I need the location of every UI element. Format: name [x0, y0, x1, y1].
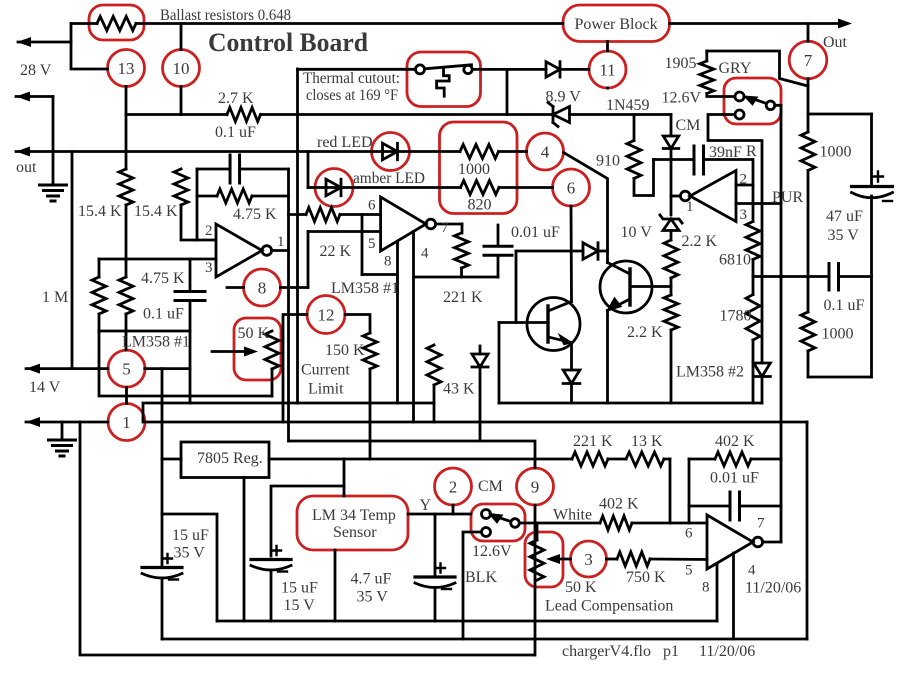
- svg-text:1000: 1000: [820, 144, 852, 161]
- svg-text:11/20/06: 11/20/06: [745, 580, 801, 597]
- svg-text:35 V: 35 V: [357, 589, 389, 606]
- svg-text:9: 9: [531, 478, 540, 497]
- svg-text:3: 3: [205, 260, 213, 276]
- svg-text:6: 6: [567, 179, 576, 198]
- svg-text:15 uF: 15 uF: [172, 527, 209, 544]
- svg-text:Ballast resistors 0.648: Ballast resistors 0.648: [160, 7, 291, 24]
- svg-text:12.6V: 12.6V: [662, 90, 702, 107]
- svg-text:35 V: 35 V: [828, 227, 860, 244]
- svg-text:0.1 uF: 0.1 uF: [143, 306, 184, 323]
- svg-text:11: 11: [599, 61, 615, 80]
- svg-text:8: 8: [702, 580, 710, 596]
- svg-text:10: 10: [173, 59, 190, 78]
- svg-text:8: 8: [258, 279, 267, 298]
- svg-text:402 K: 402 K: [715, 433, 755, 450]
- svg-text:7: 7: [441, 220, 449, 236]
- svg-text:14 V: 14 V: [29, 379, 61, 396]
- svg-text:amber LED: amber LED: [353, 170, 425, 187]
- svg-text:1: 1: [686, 199, 694, 215]
- svg-text:221 K: 221 K: [443, 289, 483, 306]
- svg-text:1000: 1000: [822, 326, 854, 343]
- svg-text:39nF: 39nF: [709, 144, 742, 161]
- svg-text:2.7 K: 2.7 K: [218, 90, 254, 107]
- svg-text:15 uF: 15 uF: [281, 580, 318, 597]
- svg-text:3: 3: [740, 207, 748, 223]
- svg-text:50 K: 50 K: [565, 579, 597, 596]
- svg-text:4: 4: [421, 246, 429, 262]
- svg-text:43 K: 43 K: [443, 381, 475, 398]
- svg-text:6: 6: [685, 526, 693, 542]
- svg-text:8.9 V: 8.9 V: [546, 89, 582, 106]
- svg-text:13: 13: [118, 59, 135, 78]
- svg-text:47 uF: 47 uF: [826, 208, 863, 225]
- svg-text:5: 5: [122, 360, 131, 379]
- svg-text:Lead Compensation: Lead Compensation: [545, 598, 673, 615]
- svg-text:7: 7: [804, 51, 813, 70]
- svg-text:chargerV4.flo: chargerV4.flo: [562, 643, 651, 660]
- svg-text:12: 12: [318, 306, 335, 325]
- svg-text:35 V: 35 V: [174, 545, 206, 562]
- svg-text:4: 4: [748, 563, 756, 579]
- svg-text:out: out: [16, 159, 37, 176]
- svg-text:4.75 K: 4.75 K: [141, 270, 185, 287]
- svg-text:150 K: 150 K: [325, 342, 365, 359]
- svg-text:221 K: 221 K: [573, 433, 613, 450]
- svg-text:15.4 K: 15.4 K: [134, 203, 178, 220]
- svg-text:Y: Y: [420, 497, 432, 514]
- svg-text:3: 3: [584, 550, 593, 569]
- svg-text:1780: 1780: [720, 308, 752, 325]
- svg-text:4.75 K: 4.75 K: [233, 206, 277, 223]
- svg-text:7805 Reg.: 7805 Reg.: [197, 450, 263, 467]
- svg-text:11/20/06: 11/20/06: [699, 643, 755, 660]
- svg-text:5: 5: [685, 563, 693, 579]
- svg-text:28 V: 28 V: [20, 62, 52, 79]
- svg-text:0.1 uF: 0.1 uF: [824, 297, 865, 314]
- svg-text:2.2 K: 2.2 K: [682, 233, 718, 250]
- svg-text:0.1 uF: 0.1 uF: [215, 124, 256, 141]
- svg-text:1: 1: [277, 234, 285, 250]
- svg-text:red LED: red LED: [317, 134, 373, 151]
- svg-text:2: 2: [449, 478, 458, 497]
- svg-text:LM358 #1: LM358 #1: [122, 334, 190, 351]
- svg-text:750 K: 750 K: [626, 569, 666, 586]
- svg-text:1N459: 1N459: [606, 97, 650, 114]
- svg-text:R: R: [746, 143, 757, 160]
- svg-text:GRY: GRY: [719, 60, 752, 77]
- svg-text:910: 910: [596, 153, 620, 170]
- svg-text:1: 1: [122, 413, 131, 432]
- svg-text:Sensor: Sensor: [333, 524, 377, 541]
- svg-text:4.7 uF: 4.7 uF: [351, 571, 392, 588]
- svg-text:6: 6: [368, 198, 376, 214]
- svg-text:2: 2: [740, 172, 748, 188]
- svg-text:0.01 uF: 0.01 uF: [511, 224, 560, 241]
- svg-text:50 K: 50 K: [238, 325, 270, 342]
- svg-text:p1: p1: [663, 643, 679, 660]
- svg-text:15.4 K: 15.4 K: [78, 203, 122, 220]
- svg-text:White: White: [553, 507, 592, 524]
- svg-text:4: 4: [541, 143, 550, 162]
- svg-text:1 M: 1 M: [42, 289, 68, 306]
- svg-text:820: 820: [468, 197, 492, 214]
- svg-text:Out: Out: [823, 34, 848, 51]
- svg-text:2.2 K: 2.2 K: [627, 324, 663, 341]
- svg-text:402 K: 402 K: [599, 496, 639, 513]
- svg-text:closes at 169 °F: closes at 169 °F: [306, 87, 398, 104]
- svg-text:10 V: 10 V: [621, 224, 653, 241]
- svg-text:12.6V: 12.6V: [472, 543, 512, 560]
- svg-text:0.01 uF: 0.01 uF: [710, 470, 759, 487]
- svg-text:5: 5: [368, 236, 376, 252]
- svg-text:6810: 6810: [719, 252, 751, 269]
- svg-text:7: 7: [757, 516, 765, 532]
- svg-text:Limit: Limit: [308, 381, 344, 398]
- svg-text:LM 34 Temp: LM 34 Temp: [312, 507, 396, 524]
- svg-text:CM: CM: [478, 478, 503, 495]
- svg-text:2: 2: [205, 223, 213, 239]
- svg-text:15 V: 15 V: [284, 597, 316, 614]
- svg-text:CM: CM: [676, 117, 701, 134]
- svg-text:1000: 1000: [458, 161, 490, 178]
- svg-text:LM358 #1: LM358 #1: [331, 280, 399, 297]
- svg-text:8: 8: [384, 254, 392, 270]
- svg-text:Current: Current: [301, 362, 350, 379]
- svg-text:LM358 #2: LM358 #2: [676, 364, 744, 381]
- svg-text:Control Board: Control Board: [208, 28, 369, 57]
- svg-text:13 K: 13 K: [631, 433, 663, 450]
- svg-text:PUR: PUR: [772, 189, 803, 206]
- svg-text:BLK: BLK: [465, 569, 497, 586]
- svg-text:22 K: 22 K: [320, 243, 352, 260]
- svg-text:1905: 1905: [665, 55, 697, 72]
- svg-text:Power Block: Power Block: [575, 16, 658, 33]
- svg-text:Thermal cutout:: Thermal cutout:: [303, 70, 400, 87]
